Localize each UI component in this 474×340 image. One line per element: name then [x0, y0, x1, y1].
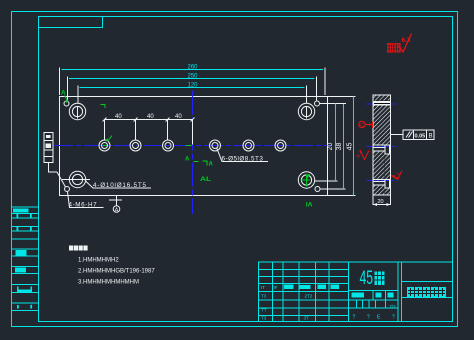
title block texts — [261, 285, 313, 321]
left grid verticals — [272, 262, 274, 322]
dimension 250 — [69, 74, 315, 80]
vertical centerline — [192, 91, 194, 215]
outline — [259, 262, 453, 322]
svg-text:40: 40 — [115, 114, 122, 120]
LEFT TABLE — [12, 207, 39, 311]
svg-text:T3: T3 — [261, 294, 267, 299]
svg-text:40: 40 — [147, 114, 154, 120]
svg-text:3T: 3T — [304, 316, 310, 321]
left table text blobs — [13, 209, 32, 309]
dimension 120 — [80, 83, 305, 89]
surface finish right — [391, 171, 402, 180]
M6 hole bottom-right — [315, 187, 320, 192]
green corner bracket mid — [203, 161, 208, 166]
svg-text:7/2: 7/2 — [389, 304, 396, 309]
green dash on centerline left of center — [186, 145, 192, 147]
surface finish top: 其余 — [387, 43, 401, 53]
counterbore hole top-left — [69, 103, 85, 119]
LEADERS AND HOLE LABELS — [68, 148, 269, 208]
svg-text:38: 38 — [336, 143, 343, 151]
green dash on centerline at middle hole 1 — [103, 145, 108, 147]
svg-text:1.HMHMHMH2: 1.HMHMHMH2 — [78, 258, 119, 264]
TITLE BLOCK — [259, 262, 453, 322]
HOLES: big counterbored corner circles — [64, 101, 320, 192]
datum circle C — [359, 121, 373, 127]
svg-text:?: ? — [392, 315, 395, 321]
middle hole 4 — [210, 140, 221, 151]
inner border frame — [39, 17, 453, 322]
green corner bracket top-left — [101, 105, 106, 109]
svg-text:3.HMHMHMHMHMHM: 3.HMHMHMHMHMHM — [78, 280, 139, 286]
LEFT DATUM STACK BOX — [44, 133, 57, 173]
svg-text:T3: T3 — [261, 316, 267, 321]
left grid horizontals — [259, 269, 349, 271]
svg-text:C: C — [360, 123, 364, 129]
svg-text:250: 250 — [188, 74, 199, 80]
GREEN ANNOTATIONS — [61, 90, 313, 209]
svg-text:45: 45 — [347, 143, 354, 151]
green dash right of vertical centerline — [194, 161, 199, 163]
section outline — [373, 95, 391, 195]
svg-text:4-Ø10lØ16.5T5: 4-Ø10lØ16.5T5 — [93, 182, 147, 189]
M6 hole top-left — [64, 101, 69, 106]
svg-text:2.HMHMHMHGB/T196-1987: 2.HMHMHMHGB/T196-1987 — [78, 269, 155, 275]
name cell horizontals — [402, 281, 453, 283]
svg-text:IF: IF — [274, 285, 278, 290]
dimension arrowheads (cyan) — [62, 69, 355, 196]
middle hole 3 — [163, 140, 174, 151]
green cross at bottom-right counterbore — [306, 175, 308, 187]
svg-text:lA: lA — [306, 202, 313, 209]
svg-text:A: A — [185, 157, 190, 163]
dimension 260 — [62, 65, 324, 71]
material cell — [397, 262, 399, 322]
section centerlines — [367, 104, 398, 181]
top accessory strip — [39, 17, 103, 28]
counterbore hole top-right — [298, 103, 314, 119]
svg-text:4-M6-H7: 4-M6-H7 — [69, 202, 98, 209]
thickness dimension 20 — [373, 195, 391, 205]
CENTERLINES — [54, 91, 331, 215]
surface finish left — [360, 150, 369, 160]
svg-text:2T2: 2T2 — [305, 294, 313, 299]
DATUM A SYMBOL below plate — [109, 196, 122, 213]
circle center ticks — [62, 107, 307, 180]
svg-text:120: 120 — [188, 83, 199, 89]
hatch fills — [374, 96, 391, 196]
svg-text:A: A — [115, 208, 119, 214]
svg-text:45: 45 — [360, 268, 374, 289]
middle sub cells — [372, 291, 374, 301]
green arrow at middle hole 1 — [108, 136, 113, 142]
middle hole 2 — [130, 140, 141, 151]
svg-text:6-Ø5lØ8.5T3: 6-Ø5lØ8.5T3 — [222, 156, 264, 163]
svg-text:6.3: 6.3 — [402, 37, 411, 44]
svg-text:20: 20 — [378, 199, 384, 205]
svg-text:20: 20 — [327, 143, 334, 151]
counterbore hole bottom-left — [69, 171, 85, 187]
middle hole 1 — [99, 140, 110, 151]
counterbore hole bottom-right — [298, 172, 314, 188]
extension lines (white) — [60, 68, 326, 104]
M6 hole top-right — [315, 101, 320, 106]
svg-text:B: B — [429, 134, 433, 140]
svg-text:A: A — [61, 90, 66, 97]
middle hole 6 — [275, 140, 286, 151]
RIGHT SIDE VERTICAL DIMENSIONS — [315, 97, 356, 196]
svg-text:IT: IT — [261, 285, 265, 290]
TOLERANCE FRAME — [391, 130, 435, 140]
svg-text:A: A — [209, 162, 214, 168]
M6 hole bottom-left — [65, 187, 70, 192]
svg-text:?: ? — [367, 315, 370, 321]
PLATE OUTLINE (main view) — [60, 97, 328, 196]
part name 接板固定板 — [407, 287, 446, 297]
svg-text:260: 260 — [188, 65, 199, 71]
green arrow top-left — [65, 96, 69, 102]
middle hole 5 — [243, 140, 254, 151]
horizontal centerline — [54, 145, 331, 147]
svg-text:TT: TT — [261, 308, 267, 313]
TECHNICAL REQUIREMENTS TEXT — [69, 246, 88, 251]
svg-text:AL: AL — [200, 176, 211, 183]
svg-text:?: ? — [353, 315, 356, 321]
svg-text:0.05: 0.05 — [415, 133, 426, 139]
CHAIN DIMENSION 40x3 (white) — [105, 120, 193, 145]
svg-text:40: 40 — [175, 114, 182, 120]
